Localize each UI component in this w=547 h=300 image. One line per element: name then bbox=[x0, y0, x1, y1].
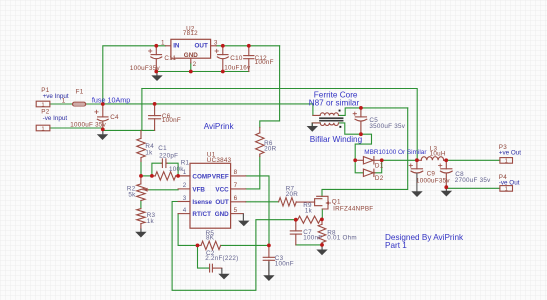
ground at C9 bbox=[411, 191, 422, 197]
node C11 top bbox=[154, 44, 158, 48]
ground at transformer secondary bbox=[307, 123, 318, 132]
wire input riser to U2 IN bbox=[103, 46, 166, 104]
wire R5 left to C2 bbox=[198, 245, 209, 268]
inductor L3 bbox=[417, 157, 446, 161]
svg-text:Bifilar Winding: Bifilar Winding bbox=[310, 135, 363, 144]
ground at U1 pin5 bbox=[238, 214, 249, 227]
svg-text:5: 5 bbox=[234, 207, 238, 214]
capacitor C7 bbox=[290, 220, 301, 245]
svg-text:C1: C1 bbox=[158, 145, 167, 152]
svg-text:20R: 20R bbox=[264, 146, 277, 153]
capacitor C1 bbox=[161, 159, 167, 168]
svg-text:-ve Input: -ve Input bbox=[43, 115, 68, 122]
svg-text:10uH: 10uH bbox=[430, 150, 446, 157]
svg-text:F1: F1 bbox=[76, 89, 84, 96]
node minus rail C4 bbox=[101, 127, 105, 131]
wire input rail to transformer primary bbox=[103, 104, 313, 116]
transformer primary phase dot bbox=[339, 110, 341, 112]
transformer core bars bbox=[320, 117, 343, 119]
svg-text:GND: GND bbox=[184, 52, 198, 59]
node R1 C1 left bbox=[150, 174, 154, 178]
svg-text:Part 1: Part 1 bbox=[385, 241, 407, 250]
wire output node to P3 bbox=[446, 159, 500, 161]
wire transformer secondary left to ground bbox=[312, 123, 320, 126]
node Q1 source R8 R9 bbox=[320, 218, 324, 222]
wire C1 branch left bbox=[152, 163, 161, 176]
svg-text:0.01 Ohm: 0.01 Ohm bbox=[327, 235, 357, 242]
svg-text:10uF16v: 10uF16v bbox=[224, 65, 251, 72]
svg-text:2: 2 bbox=[183, 182, 187, 189]
node COMP R4 R2 bbox=[139, 174, 143, 178]
svg-text:IN: IN bbox=[173, 42, 180, 49]
svg-text:RT/CT: RT/CT bbox=[192, 211, 211, 218]
svg-text:MBR10100 Or Similar: MBR10100 Or Similar bbox=[364, 149, 427, 156]
wire U2 GND pin to rail bbox=[190, 63, 192, 72]
svg-text:2: 2 bbox=[193, 61, 197, 68]
svg-text:100uF35v: 100uF35v bbox=[130, 65, 161, 72]
wire C7 bottom to R8 bottom bbox=[296, 244, 322, 246]
svg-text:D1: D1 bbox=[375, 163, 384, 170]
svg-text:fuse 10Amp: fuse 10Amp bbox=[92, 95, 130, 104]
node L3 C8 P3 bbox=[444, 158, 448, 162]
svg-text:1: 1 bbox=[505, 159, 508, 165]
wire transformer secondary right to diodes bbox=[339, 123, 372, 160]
wire minus out rail to P4 bbox=[446, 187, 500, 189]
svg-text:3500uF 35v: 3500uF 35v bbox=[369, 123, 405, 130]
capacitor C4 bbox=[95, 104, 109, 130]
svg-text:C11: C11 bbox=[164, 55, 176, 62]
IC U1 UC3843 bbox=[178, 163, 246, 228]
resistor R6 bbox=[256, 128, 264, 157]
svg-text:OUT: OUT bbox=[215, 199, 228, 206]
node ground rail C11 bbox=[154, 70, 158, 74]
node C10 top bbox=[221, 44, 225, 48]
wire C1 branch right bbox=[167, 163, 178, 176]
wire U2 output drop to R6 bbox=[260, 46, 280, 128]
svg-text:IRFZ44NPBF: IRFZ44NPBF bbox=[333, 205, 373, 212]
ground at C8 P4 rail bbox=[441, 188, 452, 196]
svg-text:100nF: 100nF bbox=[275, 261, 294, 268]
svg-text:1: 1 bbox=[41, 102, 44, 108]
node R8 bottom C7 bbox=[320, 243, 324, 247]
wire COMP node to R1 bbox=[141, 175, 152, 177]
svg-text:220pF: 220pF bbox=[159, 152, 178, 159]
resistor R5 bbox=[198, 241, 221, 249]
wire RT/CT pin4 to R5 bbox=[178, 214, 197, 246]
wire fuse F1 to input node bbox=[86, 103, 103, 105]
resistor R3 bbox=[137, 209, 145, 229]
connector P2 bbox=[36, 125, 50, 132]
node diode cathode bbox=[380, 158, 384, 162]
node fuse C4 bbox=[101, 102, 105, 106]
svg-text:GND: GND bbox=[215, 211, 229, 218]
wire VCC pin7 to R6 bottom bbox=[246, 156, 260, 189]
capacitor C6 bbox=[149, 104, 161, 130]
svg-text:7812: 7812 bbox=[183, 30, 198, 37]
svg-text:OUT: OUT bbox=[195, 42, 208, 49]
ground at C3 bbox=[263, 262, 274, 282]
svg-text:100nF: 100nF bbox=[303, 235, 322, 242]
connector P4 bbox=[500, 186, 513, 193]
svg-text:2700uF 35v: 2700uF 35v bbox=[455, 177, 491, 184]
node R5 right VREF C3 bbox=[267, 244, 271, 248]
fuse F1 bbox=[73, 102, 86, 106]
svg-text:UC3843: UC3843 bbox=[207, 157, 232, 164]
wire transformer primary right lead bbox=[339, 108, 408, 116]
svg-text:C10: C10 bbox=[230, 55, 243, 62]
svg-text:1000uF35v: 1000uF35v bbox=[416, 178, 450, 185]
transformer primary winding bbox=[313, 113, 339, 116]
voltage regulator U2 7812 bbox=[166, 39, 217, 63]
ground at C4 input minus bbox=[97, 130, 108, 140]
capacitor C8 bbox=[439, 160, 453, 188]
wire diode cathodes to output node bbox=[382, 159, 417, 161]
node R1 C1 right bbox=[176, 174, 180, 178]
wire Isense pin3 loop bbox=[172, 202, 296, 291]
svg-text:-ve Out: -ve Out bbox=[499, 180, 520, 187]
capacitor C9 bbox=[409, 160, 423, 191]
wire diode parallel right loop bbox=[375, 160, 382, 173]
wire feedback rail top bbox=[142, 89, 417, 161]
transistor Q1 IRFZ44NPBF bbox=[315, 196, 331, 209]
wire R4 bottom to COMP node bbox=[140, 161, 142, 176]
wire U2 ground rail bbox=[156, 71, 249, 73]
node C12 top bbox=[247, 44, 251, 48]
wire R5 right to VREF drop bbox=[221, 244, 269, 246]
wire Q1 source to sense node bbox=[321, 209, 323, 219]
node C5 top bbox=[359, 106, 363, 110]
svg-text:VFB: VFB bbox=[192, 186, 205, 193]
svg-text:6: 6 bbox=[234, 195, 238, 202]
resistor R7 bbox=[279, 198, 297, 206]
svg-text:VCC: VCC bbox=[215, 186, 229, 193]
svg-text:C4: C4 bbox=[110, 114, 119, 121]
capacitor C2 bbox=[210, 264, 222, 272]
node C5 bottom bbox=[359, 132, 363, 136]
diode D2 bbox=[363, 169, 375, 176]
transformer T1 ferrite core bbox=[312, 110, 342, 128]
capacitor C3 bbox=[263, 245, 274, 275]
wire VREF pin8 drop bbox=[246, 176, 269, 246]
svg-text:VREF: VREF bbox=[212, 173, 229, 180]
capacitor C10 bbox=[215, 46, 228, 72]
svg-text:1: 1 bbox=[161, 39, 165, 46]
svg-text:4: 4 bbox=[183, 207, 187, 214]
connector P3 bbox=[500, 158, 513, 165]
resistor R4 bbox=[137, 130, 145, 161]
wire U2 OUT rail bbox=[216, 45, 279, 47]
potentiometer R2 bbox=[137, 176, 149, 201]
diode D1 bbox=[355, 157, 382, 164]
svg-text:1000uF 35v: 1000uF 35v bbox=[70, 121, 106, 128]
connector P1 bbox=[36, 101, 50, 108]
svg-text:5k: 5k bbox=[128, 192, 136, 199]
node R5 left RT/CT bbox=[196, 244, 200, 248]
capacitor C5 bbox=[353, 108, 367, 134]
node ground rail C10 bbox=[221, 70, 225, 74]
transformer secondary phase dot bbox=[339, 126, 341, 128]
svg-text:+ve Input: +ve Input bbox=[43, 93, 69, 100]
node diode anode bbox=[353, 158, 357, 162]
ground under R3 bbox=[135, 229, 146, 238]
wire diode parallel left loop bbox=[355, 160, 363, 173]
node ground rail pin2 bbox=[189, 70, 193, 74]
svg-text:Isense: Isense bbox=[192, 199, 212, 206]
svg-text:8K: 8K bbox=[206, 234, 215, 241]
wire R2 to R3 bbox=[140, 201, 142, 209]
node input rail C6 bbox=[153, 102, 157, 106]
wire Q1 drain to transformer primary bbox=[322, 108, 408, 196]
svg-text:7: 7 bbox=[234, 182, 238, 189]
svg-text:COMP: COMP bbox=[192, 173, 211, 180]
svg-text:100nF: 100nF bbox=[162, 117, 181, 124]
svg-text:AviPrink: AviPrink bbox=[204, 122, 235, 131]
svg-text:1: 1 bbox=[41, 126, 44, 132]
node Isense C7 R9 bbox=[294, 218, 298, 222]
node output C9 L3 bbox=[415, 158, 419, 162]
wire R2 wiper to VFB bbox=[149, 189, 179, 191]
svg-text:1k: 1k bbox=[145, 150, 153, 157]
capacitor C11 bbox=[149, 46, 162, 72]
transformer secondary winding bbox=[312, 123, 338, 126]
svg-text:1k: 1k bbox=[305, 208, 313, 215]
wire P1 to fuse F1 bbox=[50, 103, 73, 105]
node C8 bottom P4 bbox=[444, 185, 448, 189]
wire minus rail P2 C4 C6 bbox=[50, 128, 155, 130]
ground at C2 bbox=[218, 268, 229, 279]
ground at R8 bbox=[316, 245, 327, 255]
resistor R1 bbox=[152, 172, 190, 180]
svg-text:100nF: 100nF bbox=[255, 59, 274, 66]
svg-text:1k: 1k bbox=[147, 218, 155, 225]
svg-text:2.2nF(222): 2.2nF(222) bbox=[205, 255, 238, 262]
svg-text:D2: D2 bbox=[375, 175, 384, 182]
capacitor C12 bbox=[244, 46, 254, 72]
resistor R9 bbox=[298, 216, 321, 223]
wire OUT pin6 to R7 bbox=[246, 201, 279, 203]
svg-text:100k: 100k bbox=[169, 166, 184, 173]
svg-text:8: 8 bbox=[234, 169, 238, 176]
svg-text:1: 1 bbox=[505, 187, 508, 193]
wire feedback drop to R4 bbox=[141, 89, 143, 131]
svg-text:N87 or similar: N87 or similar bbox=[309, 99, 360, 108]
svg-text:3: 3 bbox=[183, 195, 187, 202]
wire R7 to Q1 gate bbox=[296, 201, 314, 203]
ground under U2 rail bbox=[151, 72, 162, 82]
svg-text:20R: 20R bbox=[286, 191, 299, 198]
svg-text:3: 3 bbox=[214, 39, 218, 46]
resistor R8 bbox=[318, 219, 326, 245]
svg-text:+ve Out: +ve Out bbox=[499, 150, 521, 157]
